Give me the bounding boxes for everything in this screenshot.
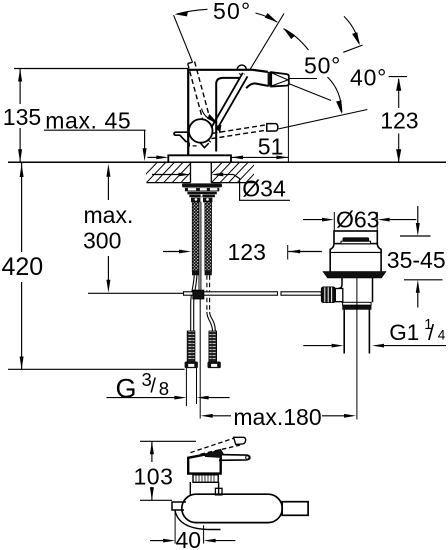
svg-text:35-45: 35-45 (387, 247, 446, 273)
grip top slope (253, 70, 268, 72)
svg-text:G: G (116, 374, 137, 404)
svg-text:8: 8 (159, 378, 169, 399)
123 right bottom arrow (396, 149, 401, 162)
svg-text:135: 135 (3, 104, 41, 130)
ball circle (189, 119, 213, 143)
svg-text:300: 300 (83, 228, 121, 254)
hoses (185, 202, 221, 419)
svg-text:max.: max. (84, 202, 134, 228)
max45 down arrow (143, 148, 147, 161)
dim 135 vertical line (19, 69, 21, 105)
svg-text:123: 123 (228, 239, 266, 265)
svg-text:51: 51 (258, 134, 284, 160)
51 extension line (from grip cap down to deck) (287, 86, 289, 162)
dashed hidden detail under ball (189, 143, 197, 146)
svg-text:50°: 50° (304, 53, 341, 79)
hatch right (202, 162, 266, 184)
bottom white row + black row (343, 302, 372, 305)
deck line (8, 161, 446, 163)
max45 underline + drop line (44, 129, 146, 131)
swoosh (175, 511, 221, 530)
grip cap divider (black) (268, 72, 272, 87)
135 top arrow (18, 69, 22, 82)
svg-text:max. 45: max. 45 (45, 108, 131, 134)
svg-text:103: 103 (134, 463, 174, 489)
barrel stadium (182, 494, 282, 522)
center pop-up rod vertical (198, 202, 200, 291)
arc A left arrowhead (175, 11, 189, 16)
103 top ref line (140, 440, 196, 442)
small arc S1 near pivot (dashed-up stem to solid stem) (202, 109, 216, 123)
top reference line (top of body) (14, 68, 188, 70)
L2 line from cap corner (289, 84, 331, 101)
neck dark wedge (204, 449, 223, 457)
lower body walls (339, 278, 342, 289)
dim 51 + base plate arrows (148, 86, 289, 162)
123 right dim line (398, 79, 400, 108)
body block (188, 453, 221, 474)
L1 leader under 50#2 (289, 78, 317, 80)
arc B (50 deg right) (284, 29, 309, 50)
hatch left (137, 162, 210, 184)
stub from knob to valve (335, 289, 343, 302)
inner top-face edge + right edge with rounded corner (216, 78, 240, 152)
103 arrows (150, 441, 154, 454)
grip underside + cap (255, 83, 268, 86)
dim 420 vertical line (21, 162, 23, 252)
dashed handle (up position) (191, 438, 234, 452)
arc B lower arrowhead (336, 100, 342, 114)
max300 top arrow (106, 164, 110, 177)
arc C (40 deg) (344, 16, 359, 43)
135 bottom arrow (18, 149, 22, 162)
small arc S2 (solid stem to dashed-down stem) (218, 126, 221, 133)
mid 123 dimension arrows (163, 245, 322, 260)
dashed handle end cap (234, 437, 246, 444)
arc A right arrowhead (265, 13, 278, 22)
knurled knob (321, 287, 335, 303)
hose tails (191, 275, 216, 331)
small joint dome on grip (237, 65, 246, 70)
shank stack below deck (182, 183, 222, 202)
svg-text:40: 40 (176, 527, 202, 550)
upper cylinder (334, 231, 377, 244)
svg-text:50°: 50° (213, 0, 251, 24)
svg-text:4: 4 (438, 328, 446, 343)
40deg tick right of text (389, 76, 408, 78)
dim max.180 (201, 414, 356, 418)
S2 arrowhead at dashed stem (216, 125, 221, 134)
svg-text:40°: 40° (350, 64, 387, 90)
vertical connectors body->barrel (189, 482, 191, 495)
103 bottom ref line (140, 499, 172, 501)
svg-text:/: / (150, 376, 156, 398)
deck bottom line segments (147, 182, 191, 184)
dim Ø34 (152, 173, 290, 201)
left hook lever (174, 132, 188, 141)
E3: axis of dashed down handle (279, 110, 368, 129)
E1: axis of dashed up-left handle (174, 15, 193, 62)
lever stem (double line) (211, 73, 243, 128)
plug plate + black band (341, 241, 371, 244)
body outline (188, 70, 253, 156)
123 right top arrow (396, 78, 401, 91)
T1 tick (343, 45, 362, 52)
40 ext lines (174, 511, 176, 544)
svg-text:123: 123 (380, 107, 418, 133)
max300 dim line (107, 176, 109, 200)
left tube (172, 502, 186, 510)
arc C arrowhead (352, 32, 360, 45)
hole edges (190, 162, 192, 182)
flange black (chamfered) (323, 272, 386, 278)
drain tube (344, 309, 369, 353)
S1 arrowhead at solid stem (207, 114, 218, 123)
dashed handle down-right (stem) (213, 125, 267, 134)
G 3/8 dimension arrows (107, 396, 230, 400)
svg-text:/: / (428, 320, 435, 345)
40 arrows (150, 540, 163, 542)
valve axis centerline (356, 278, 358, 420)
max300 bottom arrow (106, 280, 110, 293)
solid grip bar (219, 455, 250, 461)
arc B upper arrowhead (283, 28, 295, 39)
svg-text:max.180: max.180 (233, 404, 321, 430)
mount block (193, 475, 218, 483)
stud fittings (191, 198, 200, 203)
420 bottom arrow (20, 357, 24, 370)
svg-text:Ø63: Ø63 (336, 207, 379, 233)
dashed handle up-left (188, 64, 203, 120)
420 bottom ref line (8, 368, 185, 370)
dim 35-45 (400, 206, 443, 308)
flare (330, 244, 334, 272)
outlet rect right (282, 502, 308, 516)
max300 bottom ref (rod level thin part) (88, 292, 184, 294)
G3/8 connectors (187, 331, 195, 362)
dim Ø63 (303, 212, 416, 231)
dim G1 1/4 (303, 344, 446, 348)
E2: axis of solid lever (250, 14, 284, 70)
103 dim line (151, 441, 153, 462)
dashed handle down cap (267, 124, 278, 132)
arc A (50 deg top) (177, 9, 208, 14)
420 top arrow (below deck pointing up) (20, 164, 24, 177)
svg-text:G1: G1 (389, 320, 419, 345)
base plate (168, 155, 231, 162)
svg-text:420: 420 (2, 253, 44, 281)
